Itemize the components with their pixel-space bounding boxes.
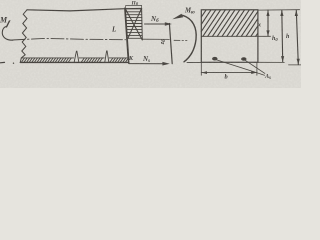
- crack spike 2: [105, 51, 109, 62]
- axis segment between epure and force couple line: [143, 38, 170, 40]
- section (crack face) line: [125, 8, 128, 57]
- b dimension line: [201, 72, 257, 74]
- b arrowhead right: [251, 71, 257, 74]
- force Ns arrow: [129, 63, 166, 65]
- moment M arc (left end): [2, 27, 13, 41]
- moment M arrowhead: [6, 20, 11, 27]
- Ns arrowhead: [162, 62, 169, 66]
- epure width dimension line: [126, 5, 141, 7]
- bottom edge extension to h0: [258, 61, 284, 63]
- h0 arrow up: [280, 10, 283, 16]
- Nb arrowhead: [165, 22, 172, 26]
- h0 dimension line: [281, 10, 284, 62]
- top extension line for dimensions: [258, 9, 300, 11]
- extension line at h bottom: [289, 64, 302, 66]
- crack face lower part: [127, 58, 130, 64]
- neutral axis dash-dot line: [12, 38, 126, 40]
- tension reinforcement strip top edge segments: [21, 57, 73, 59]
- cross-section rectangle: [201, 10, 258, 63]
- Mu arrow barb: [172, 14, 183, 19]
- lever arm line (force couple): [169, 24, 172, 64]
- compression stress epure: right edge: [141, 8, 144, 40]
- epure diagonal TR-BL: [127, 9, 141, 40]
- break line (zigzag) at left beam end: [20, 10, 27, 63]
- x dimension line: [267, 10, 269, 36]
- background paper: [0, 0, 301, 88]
- epure horizontal hatch: [125, 9, 142, 39]
- strip diagonal hatch: [22, 58, 129, 62]
- epure dimension tick left: [124, 6, 126, 9]
- rebar dot 2: [241, 57, 246, 61]
- h arrow up: [295, 10, 298, 16]
- scan speck left margin: [0, 61, 5, 63]
- neutral axis line in section + extension to x-dim: [201, 35, 270, 37]
- bottom edge extension left of section: [187, 61, 201, 63]
- strip bottom edge: [20, 61, 129, 63]
- b dimension extension line left: [200, 62, 202, 75]
- rebar dot 1: [212, 57, 217, 61]
- rebar leader line 1: [216, 60, 265, 76]
- moment Mu arc: [183, 15, 197, 62]
- axis segment through moment arc: [174, 39, 187, 41]
- h arrow down: [297, 59, 300, 65]
- force Nb arrow: [145, 23, 169, 25]
- h0 arrow down: [281, 56, 284, 62]
- beam top edge: [27, 9, 142, 11]
- paper grain overlay: [0, 0, 1, 1]
- x dim arrow up: [266, 10, 269, 16]
- x dim arrow down: [266, 30, 269, 36]
- b arrowhead left: [201, 71, 207, 74]
- h dimension line: [296, 10, 298, 65]
- scan speck dot: [13, 63, 14, 64]
- crack spike 1: [74, 51, 79, 62]
- b dimension extension line right: [256, 62, 258, 75]
- epure dimension tick right: [141, 6, 143, 9]
- compression zone hatch (45deg): [201, 10, 258, 36]
- epure diagonal TL-BR: [125, 9, 142, 40]
- rebar leader line 2: [245, 60, 265, 74]
